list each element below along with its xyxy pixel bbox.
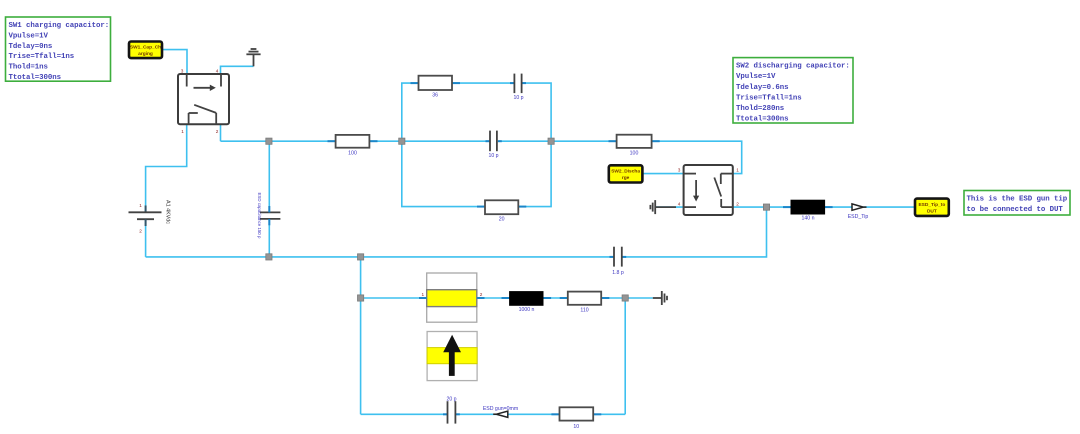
svg-text:1: 1 <box>181 129 184 134</box>
svg-text:Tdelay=0ns: Tdelay=0ns <box>9 43 53 51</box>
note annotation: SW2 discharging capacitor <box>733 58 853 124</box>
wire: bottom row 20p cap to right riser <box>456 413 625 415</box>
svg-text:140 n: 140 n <box>802 216 815 222</box>
wire: bottom R branch <box>402 141 551 206</box>
svg-text:10 p: 10 p <box>488 153 498 159</box>
capacitor C 10p (top branch) <box>510 74 526 101</box>
svg-text:Vpulse=1V: Vpulse=1V <box>9 32 49 40</box>
svg-text:1: 1 <box>139 203 142 208</box>
wire: battery minus down to bottom bus <box>145 220 147 257</box>
svg-text:Ttotal=300ns: Ttotal=300ns <box>736 116 789 124</box>
capacitor C 10p (mid bus) <box>486 131 502 159</box>
junction node (gun riser / mid row) <box>358 295 364 301</box>
switch SW1 <box>178 74 229 124</box>
wire: mid bus right segment to SW2 pin 1 <box>499 141 742 173</box>
svg-text:SW1 charging capacitor:: SW1 charging capacitor: <box>9 22 110 30</box>
port ESD_Tip (arrow symbol) <box>848 204 869 220</box>
svg-text:100: 100 <box>630 150 639 156</box>
note annotation: ESD gun tip note <box>964 191 1070 216</box>
ESD gun body (yellow band with arrow) <box>427 332 477 381</box>
svg-text:SW1_Cap_Ch: SW1_Cap_Ch <box>130 45 161 51</box>
transformer / coupler (yellow band component) <box>419 273 485 322</box>
svg-text:SW2 discharging capacitor:: SW2 discharging capacitor: <box>736 63 850 71</box>
wire: bottom row left to 20p cap <box>361 413 447 415</box>
svg-text:3: 3 <box>678 168 681 173</box>
svg-text:10: 10 <box>573 424 579 430</box>
wire: label SW1_Cap_Charging to SW1 pin 3 <box>162 50 187 74</box>
label SW2_Discharge <box>609 165 643 182</box>
ground (left of SW2 pin 4) <box>650 200 676 214</box>
svg-text:20 p: 20 p <box>446 396 456 402</box>
wire: SW1 pin 1 down-left to battery plus <box>146 124 187 212</box>
svg-text:1.8 p: 1.8 p <box>612 270 624 276</box>
ground (top, near SW1 pin 4) <box>246 49 260 66</box>
svg-text:arging: arging <box>138 51 153 57</box>
inductor L 140n (black body) <box>783 200 833 221</box>
wire: SW1 pin 2 down to mid bus <box>220 124 222 141</box>
note annotation: SW1 charging capacitor <box>6 17 111 82</box>
svg-text:Thold=280ns: Thold=280ns <box>736 105 784 113</box>
wire: ground to SW2 pin 4 <box>655 206 684 208</box>
svg-text:ESD capacitance 150 p: ESD capacitance 150 p <box>257 193 262 239</box>
junction node (SW2 out / 1.8p riser) <box>763 204 769 210</box>
svg-text:Trise=Tfall=1ns: Trise=Tfall=1ns <box>9 53 75 61</box>
svg-text:1: 1 <box>736 168 739 173</box>
svg-text:Trise=Tfall=1ns: Trise=Tfall=1ns <box>736 94 802 102</box>
wire: bottom bus 1.8p cap to riser up to SW2 output node <box>622 207 766 257</box>
junction node (RC branch right) <box>548 138 554 144</box>
svg-text:2: 2 <box>216 129 219 134</box>
label SW1_Cap_Charging <box>129 42 162 59</box>
svg-text:36: 36 <box>432 93 438 99</box>
inductor L 1000n (black body) <box>502 292 552 314</box>
wire: bottom bus from battery to 1.8p cap <box>146 256 614 258</box>
wire: L140n to ESD_Tip port <box>825 206 852 208</box>
junction node (R110 / ground / riser) <box>622 295 628 301</box>
resistor R 20 (bottom branch) <box>477 200 526 222</box>
svg-text:ESD gun=0mm: ESD gun=0mm <box>483 406 518 412</box>
wire: mid bus left segment (to 10p cap) <box>221 140 490 142</box>
junction node (RC branch left) <box>399 138 405 144</box>
wire: ESD_Tip port to label ESD_Tip_to_DUT <box>864 206 916 208</box>
svg-text:This is the ESD gun tip: This is the ESD gun tip <box>967 195 1068 203</box>
resistor R 110 <box>560 292 610 314</box>
resistor R 100 (mid bus left) <box>328 135 378 157</box>
ground (right of R110, pointing right) <box>653 291 667 305</box>
wire: top RC branch left <box>402 83 514 141</box>
wire: mid row to transformer pin 1 <box>361 297 427 299</box>
svg-text:Thold=1ns: Thold=1ns <box>9 64 48 72</box>
svg-text:2: 2 <box>139 229 142 234</box>
svg-text:ESD_Tip: ESD_Tip <box>848 214 869 220</box>
wire: top RC branch right <box>522 83 551 141</box>
svg-text:Tdelay=0.6ns: Tdelay=0.6ns <box>736 84 789 92</box>
resistor R 100 (before SW2) <box>609 135 660 157</box>
svg-text:DUT: DUT <box>927 208 937 214</box>
wire: SW1 pin 4 to ground <box>221 66 254 74</box>
svg-text:ESD_Tip_to: ESD_Tip_to <box>918 202 945 208</box>
svg-text:20: 20 <box>499 217 505 223</box>
junction node (bottom bus / gun riser) <box>358 254 364 260</box>
svg-text:1000 n: 1000 n <box>519 307 535 313</box>
svg-text:SW2_Discha: SW2_Discha <box>611 169 640 175</box>
switch SW2 <box>684 165 733 215</box>
junction node (battery bus / storage cap bottom) <box>266 254 272 260</box>
capacitor C 20p (gun loop) <box>443 396 460 423</box>
junction node (storage cap top / mid bus) <box>266 138 272 144</box>
wire: mid row transformer pin 2 to ground <box>477 297 653 299</box>
port arrow ESD gun=0mm <box>483 406 518 417</box>
svg-text:2: 2 <box>480 292 483 297</box>
resistor R 36 (top branch) <box>411 76 461 99</box>
svg-text:3: 3 <box>181 68 184 73</box>
svg-text:Vpulse=1V: Vpulse=1V <box>736 73 776 81</box>
wire: label SW2_Discharge to SW2 pin 3 <box>642 173 683 175</box>
svg-text:Ttotal=300ns: Ttotal=300ns <box>9 74 62 82</box>
svg-text:A1 4KVdc: A1 4KVdc <box>165 200 171 224</box>
svg-text:to be connected to DUT: to be connected to DUT <box>967 206 1064 214</box>
svg-text:1: 1 <box>421 292 424 297</box>
wire: storage cap top lead <box>268 141 270 211</box>
resistor R 10 (gun loop) <box>551 407 601 430</box>
wire: SW2 pin 2 to output node and L140n <box>733 206 791 208</box>
svg-text:100: 100 <box>348 151 357 157</box>
svg-text:4: 4 <box>678 202 681 207</box>
wire: right riser of gun loop <box>624 298 626 414</box>
svg-text:110: 110 <box>580 308 588 314</box>
svg-text:10 p: 10 p <box>513 95 523 101</box>
capacitor C 1.8p (bottom bus) <box>610 247 627 276</box>
svg-text:4: 4 <box>216 68 219 73</box>
label ESD_Tip_to_DUT <box>915 199 949 216</box>
wire: storage cap bottom lead <box>268 220 270 257</box>
svg-text:rge: rge <box>622 175 630 181</box>
svg-text:2: 2 <box>736 202 739 207</box>
battery A1 (DC source) <box>129 206 162 227</box>
capacitor C_storage (ESD capacitance) <box>260 206 280 225</box>
wire: left riser of gun body network <box>360 257 362 414</box>
